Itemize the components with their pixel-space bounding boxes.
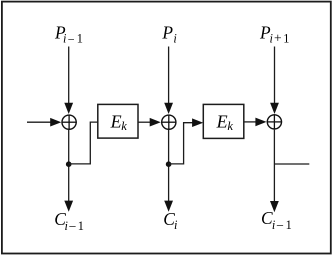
wire U2 output arrow to X3 — [244, 118, 267, 127]
xor adder X2 — [161, 115, 176, 130]
wire X2 output down to C_i — [164, 130, 173, 212]
svg-text:k: k — [227, 119, 233, 133]
node P_{i+1} label — [259, 22, 289, 45]
svg-text:1: 1 — [78, 219, 84, 233]
svg-text:−: − — [68, 32, 75, 46]
wire left chaining input arrow — [27, 118, 61, 127]
wire feedback tap J1 to U1 — [69, 122, 98, 164]
wire P_{i-1} input arrow — [64, 47, 73, 115]
node P_i label — [161, 22, 177, 45]
svg-text:1: 1 — [77, 32, 83, 46]
svg-text:+: + — [274, 31, 282, 46]
svg-text:i: i — [270, 31, 274, 45]
svg-text:−: − — [69, 219, 77, 234]
xor adder X1 — [61, 115, 76, 130]
svg-text:i: i — [63, 32, 67, 46]
junction dot J2 — [166, 161, 172, 167]
block cipher U1 E_k — [98, 104, 138, 138]
wire X3 output down to C_{i+1} — [270, 130, 279, 213]
node C_i label — [163, 209, 178, 232]
svg-text:1: 1 — [283, 31, 289, 45]
svg-text:i: i — [173, 32, 177, 46]
svg-text:i: i — [174, 218, 178, 232]
wire P_{i+1} input arrow — [270, 47, 279, 115]
wire feedback tap J2 to U2 arrow — [169, 118, 204, 163]
wire X1 output down to C_{i-1} — [64, 130, 73, 212]
xor adder X3 — [267, 114, 282, 129]
node P_{i-1} label — [54, 22, 83, 46]
svg-text:E: E — [110, 111, 122, 131]
svg-text:E: E — [216, 111, 228, 131]
svg-text:k: k — [121, 119, 127, 133]
svg-text:1: 1 — [286, 218, 292, 232]
svg-text:−: − — [276, 218, 284, 233]
node C_{i-1} right label — [261, 208, 292, 233]
svg-text:P: P — [161, 22, 173, 42]
node C_{i-1} label — [54, 209, 84, 234]
wire chaining stub right — [274, 163, 309, 165]
block cipher U2 E_k — [203, 104, 244, 138]
wire P_i input arrow — [164, 47, 173, 115]
junction dot J1 — [66, 161, 72, 167]
wire U1 output arrow to X2 — [138, 118, 161, 127]
